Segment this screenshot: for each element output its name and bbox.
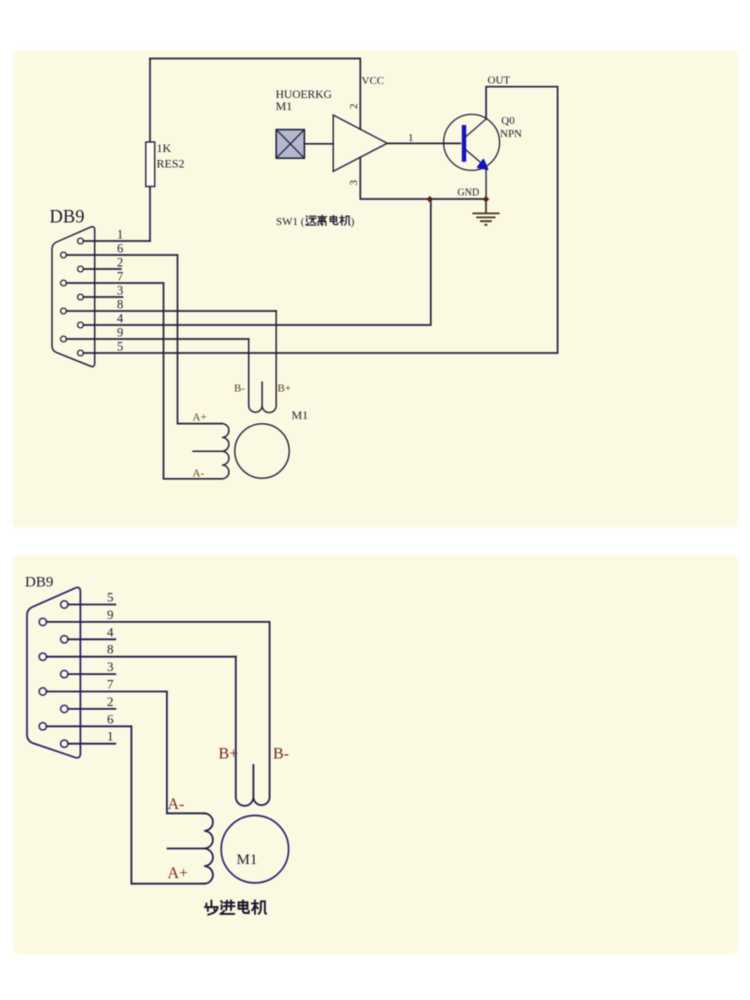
svg-text:7: 7 <box>117 270 123 284</box>
svg-text:M1: M1 <box>292 408 309 422</box>
inductor B coil (top) <box>249 311 277 413</box>
inductor B coil (bottom) <box>236 622 270 806</box>
connector DB9 (bottom schematic) body <box>27 588 80 758</box>
ground symbol <box>472 199 499 225</box>
svg-text:DB9: DB9 <box>50 208 85 228</box>
svg-text:A-: A- <box>168 796 185 813</box>
svg-text:OUT: OUT <box>488 75 511 87</box>
svg-text:4: 4 <box>107 624 114 639</box>
svg-text:6: 6 <box>117 242 123 256</box>
label 电 <box>239 900 249 913</box>
junction node (emitter-GND) <box>483 196 490 203</box>
svg-text:7: 7 <box>107 677 114 692</box>
DB9 pins 1-9 (top) <box>78 238 84 244</box>
label 机 <box>340 215 350 225</box>
wire pin5 stub (bottom) <box>68 604 115 606</box>
svg-text:RES2: RES2 <box>157 157 185 171</box>
panel 2 background <box>13 555 738 954</box>
motor M1 circle (bottom) <box>221 816 288 883</box>
wire pin8 to B+ (bottom) <box>47 656 236 658</box>
svg-text:1: 1 <box>107 729 114 744</box>
svg-text:A+: A+ <box>193 412 207 424</box>
svg-text:): ) <box>351 216 355 228</box>
svg-text:B+: B+ <box>278 383 292 395</box>
svg-text:5: 5 <box>117 340 123 354</box>
wire hall to buffer <box>304 143 333 145</box>
inductor A coil (bottom) <box>204 813 213 883</box>
connector DB9 (top schematic) body <box>52 227 95 367</box>
wire buffer output pin1 to Q0 base <box>387 142 460 144</box>
transistor Q0 circle <box>444 114 500 170</box>
svg-text:SW1 (: SW1 ( <box>276 216 305 228</box>
svg-text:8: 8 <box>117 298 123 312</box>
svg-text:9: 9 <box>117 326 123 340</box>
wire pin6 to A+ (top) <box>67 255 223 424</box>
wire pin2 stub (top) <box>84 268 122 270</box>
svg-text:A+: A+ <box>168 865 189 882</box>
svg-text:2: 2 <box>348 104 360 110</box>
wire pin3 stub (bottom) <box>68 673 115 675</box>
junction node (pin4-GND) <box>427 196 434 203</box>
label 远 <box>306 216 316 225</box>
svg-text:8: 8 <box>107 642 114 657</box>
svg-text:1: 1 <box>117 228 123 242</box>
wire pin4 stub (bottom) <box>68 638 115 640</box>
svg-text:3: 3 <box>348 180 360 186</box>
svg-text:6: 6 <box>107 711 114 726</box>
svg-text:2: 2 <box>117 256 123 270</box>
wire pin4 to GND node <box>84 199 431 325</box>
wire pin7 to A- (bottom) <box>47 692 205 814</box>
svg-text:2: 2 <box>107 694 114 709</box>
pin 3 wire (buffer) to GND line <box>360 157 486 199</box>
A coil centre tap (bottom) <box>168 848 205 850</box>
svg-text:M1: M1 <box>237 852 258 868</box>
wire R1 top to VCC net <box>150 59 360 130</box>
resistor R1 body 1K RES2 <box>146 142 155 187</box>
wire pin8 to B+ coil (top) <box>67 310 277 312</box>
panel 1 background <box>13 50 738 527</box>
hall sensor M1 HUOERKG square <box>276 130 304 159</box>
label 步 <box>205 900 218 914</box>
svg-text:5: 5 <box>107 590 114 605</box>
svg-text:Q0: Q0 <box>501 115 515 127</box>
DB9 pins 1-9 (bottom) <box>61 601 68 608</box>
resistor R1 lead wires <box>149 59 151 242</box>
wire pin9 to B- (bottom) <box>47 621 270 623</box>
svg-text:B-: B- <box>234 383 245 395</box>
svg-text:GND: GND <box>458 188 480 199</box>
svg-text:NPN: NPN <box>500 128 522 140</box>
transistor Q0 emitter <box>466 150 481 163</box>
svg-text:3: 3 <box>107 659 114 674</box>
svg-text:A-: A- <box>193 468 205 480</box>
svg-text:4: 4 <box>117 312 124 326</box>
svg-text:1K: 1K <box>157 141 172 155</box>
svg-text:B+: B+ <box>219 746 239 763</box>
svg-text:VCC: VCC <box>362 75 385 87</box>
svg-text:DB9: DB9 <box>25 575 53 591</box>
buffer SW1 triangle <box>333 115 387 171</box>
svg-text:9: 9 <box>107 607 114 622</box>
transistor Q0 collector <box>466 119 487 137</box>
wire pin1 to resistor R1 bottom <box>84 240 151 242</box>
wire pin5 to OUT net <box>84 87 558 353</box>
svg-text:3: 3 <box>117 284 123 298</box>
wire pin9 to B- coil (top) <box>67 338 249 340</box>
wire pin1 stub (bottom) <box>68 743 115 745</box>
label 机2 <box>252 900 266 914</box>
transistor Q0 base bar <box>462 125 466 162</box>
svg-text:1: 1 <box>408 132 414 144</box>
wire pin3 stub (top) <box>84 296 123 298</box>
label 电 <box>330 215 337 224</box>
wire Q0 emitter to ground <box>485 166 487 199</box>
A coil centre tap (top) <box>193 450 222 452</box>
label 进 <box>220 900 234 914</box>
transistor Q0 emitter arrow <box>478 160 488 169</box>
motor M1 circle (top) <box>235 424 289 478</box>
wire pin6 to A+ (bottom) <box>47 726 205 883</box>
svg-text:B-: B- <box>273 746 289 763</box>
label 离 <box>318 215 327 225</box>
wire pin2 stub (bottom) <box>68 708 115 710</box>
svg-text:M1: M1 <box>276 99 293 113</box>
wire pin7 to A- (top) <box>67 283 223 479</box>
inductor A coil (top) <box>222 424 229 479</box>
